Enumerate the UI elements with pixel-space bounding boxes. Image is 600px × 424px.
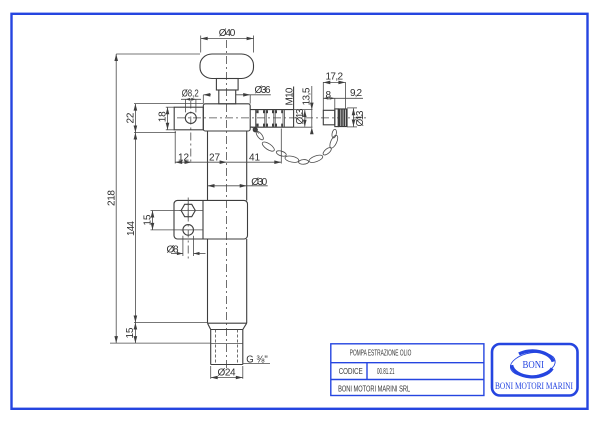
svg-text:Ø13: Ø13 [295, 108, 306, 124]
bracket [174, 200, 248, 239]
bolt circle [183, 225, 194, 236]
svg-text:144: 144 [126, 221, 137, 236]
dim row 12/27/41 [174, 131, 176, 164]
hole 8.2 [185, 113, 196, 124]
chain links [255, 129, 339, 165]
ext head top/bottom + 22 [134, 103, 203, 105]
centerline main vertical [226, 40, 228, 369]
dim dia24 [210, 366, 212, 379]
svg-text:Ø13: Ø13 [355, 110, 366, 126]
dims 17.2 / 8 / 9.2 [322, 82, 324, 110]
svg-text:Ø8,2: Ø8,2 [182, 89, 199, 100]
bottom stub G3/8 [210, 330, 212, 365]
emblem thick arc bottom-left [512, 365, 553, 377]
svg-text:00.81.21: 00.81.21 [377, 367, 395, 376]
svg-text:Ø24: Ø24 [218, 368, 236, 379]
svg-text:Ø36: Ø36 [255, 85, 271, 96]
dim 144 [134, 322, 208, 324]
svg-text:BONI MOTORI MARINI: BONI MOTORI MARINI [495, 382, 573, 392]
svg-text:15: 15 [143, 214, 154, 225]
svg-text:15: 15 [125, 327, 136, 338]
centerline horizontal through head and fitting [177, 117, 368, 119]
dim dia8 [182, 236, 184, 256]
svg-text:18: 18 [158, 111, 169, 122]
emblem thick arc top-right [519, 351, 553, 362]
title block [331, 344, 484, 396]
emblem thin ellipse [509, 349, 557, 379]
head body [203, 104, 250, 131]
dim dia36 [202, 95, 204, 104]
dim dia13 right [347, 107, 357, 109]
svg-text:13,5: 13,5 [302, 87, 313, 105]
svg-text:M10: M10 [285, 87, 296, 105]
upper cylinder [207, 131, 209, 201]
svg-text:12: 12 [178, 152, 189, 163]
hex bolt [181, 204, 195, 216]
stem lower [219, 90, 236, 104]
svg-text:41: 41 [249, 153, 260, 164]
svg-text:CODICE: CODICE [339, 367, 363, 376]
head left block [174, 107, 203, 130]
centerline hole vertical [190, 101, 192, 164]
stem upper [216, 79, 238, 91]
thread dashed lines [215, 330, 217, 365]
dim dia40 [200, 36, 202, 53]
svg-text:BONI MOTORI MARINI SRL: BONI MOTORI MARINI SRL [338, 385, 410, 394]
svg-text:8: 8 [326, 90, 332, 101]
dim 15 bracket [151, 210, 182, 212]
svg-text:22: 22 [126, 112, 137, 123]
dim 18 [166, 106, 174, 108]
dim 13.5 [311, 86, 313, 127]
svg-text:Ø40: Ø40 [219, 28, 236, 39]
ext knob top left + 218 [116, 53, 200, 55]
svg-text:27: 27 [209, 152, 220, 163]
svg-text:218: 218 [106, 190, 117, 206]
chamfer collar [208, 323, 211, 329]
dim dia13 left [304, 110, 306, 127]
svg-text:Ø8: Ø8 [167, 245, 179, 256]
fitting right of head [250, 109, 293, 111]
svg-text:POMPA ESTRAZIONE OLIO: POMPA ESTRAZIONE OLIO [350, 349, 412, 358]
dim dia30 [208, 185, 247, 187]
svg-text:9,2: 9,2 [350, 88, 362, 99]
knob [200, 54, 254, 79]
chain attach dot [253, 127, 258, 132]
groove corner marks [256, 110, 282, 126]
lower cylinder [207, 239, 209, 323]
svg-text:17,2: 17,2 [326, 72, 344, 83]
svg-text:Ø30: Ø30 [251, 177, 267, 188]
fitting ext lines for dia13 [294, 109, 313, 111]
svg-text:BONI: BONI [523, 360, 545, 371]
plug part [323, 110, 335, 125]
logo box [492, 344, 578, 396]
dim 15 bottom [110, 342, 211, 344]
